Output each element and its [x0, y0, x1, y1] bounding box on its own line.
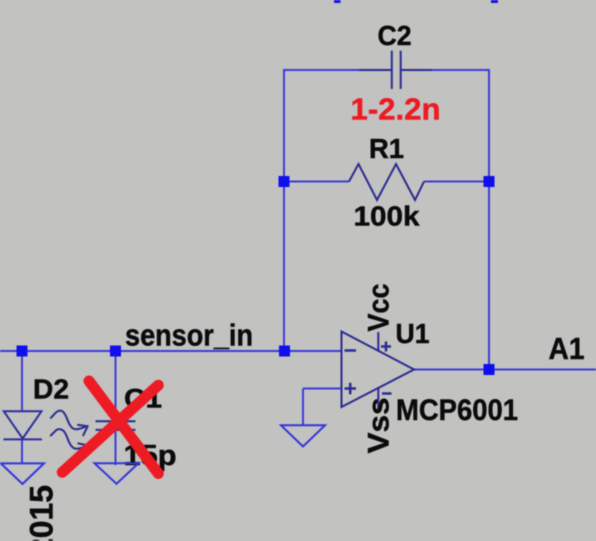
junction — [279, 346, 290, 357]
op-amp U1 — [342, 332, 415, 411]
clipped text descender — [491, 0, 498, 3]
junction — [484, 176, 495, 187]
svg-text:100k: 100k — [354, 200, 420, 231]
svg-text:Vcc: Vcc — [363, 284, 396, 332]
diode D2 — [3, 411, 42, 439]
wire — [115, 351, 117, 421]
light arrow — [51, 429, 88, 454]
wire — [21, 439, 23, 463]
wire — [414, 369, 596, 371]
svg-text:MCP6001: MCP6001 — [396, 394, 518, 427]
svg-text:A1: A1 — [549, 331, 585, 366]
wire — [21, 351, 23, 411]
wire — [488, 70, 490, 370]
wire — [303, 388, 341, 390]
ground — [1, 463, 44, 484]
svg-text:Vss: Vss — [363, 398, 396, 454]
wire — [283, 69, 359, 71]
junction — [484, 364, 495, 375]
clipped text descender — [334, 0, 341, 3]
svg-text:R1: R1 — [369, 133, 404, 164]
junction — [279, 176, 290, 187]
svg-text:U1: U1 — [396, 318, 430, 349]
capacitor C2 — [359, 51, 432, 89]
junction — [110, 346, 121, 357]
junction — [17, 346, 28, 357]
svg-text:2015: 2015 — [24, 485, 60, 541]
svg-text:1-2.2n: 1-2.2n — [351, 92, 441, 127]
wire — [424, 181, 489, 183]
wire — [0, 350, 341, 352]
svg-text:D2: D2 — [33, 374, 69, 405]
light arrow — [51, 411, 88, 436]
capacitor C1 — [96, 421, 136, 430]
svg-text:sensor_in: sensor_in — [125, 318, 253, 353]
wire — [115, 430, 117, 465]
svg-text:C2: C2 — [378, 20, 412, 51]
annotation red X — [62, 381, 158, 474]
ground — [95, 463, 139, 484]
wire — [302, 389, 304, 427]
resistor R1 — [349, 164, 424, 200]
wire — [432, 69, 490, 71]
wire — [284, 181, 349, 183]
wire — [283, 70, 285, 351]
ground — [281, 425, 325, 446]
